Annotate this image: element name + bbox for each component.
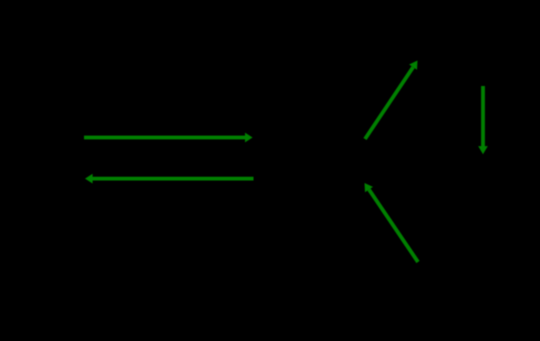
- diagonal arrow up-right: [365, 61, 418, 140]
- reverse equilibrium arrow (bottom, pointing left): [85, 174, 254, 184]
- forward equilibrium arrow (top, pointing right): [84, 133, 253, 143]
- vertical arrow pointing down (right side): [478, 86, 488, 154]
- diagonal arrow up-left (lower): [365, 183, 419, 262]
